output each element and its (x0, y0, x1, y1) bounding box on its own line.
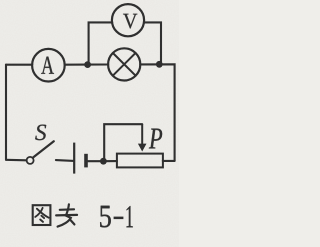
wire: left junction to lamp (88, 63, 109, 65)
wire: voltmeter branch left (dot up and over to V) (89, 22, 113, 62)
wire: bottom left to switch (6, 159, 27, 162)
lamp (108, 48, 140, 80)
node: bottom junction (100, 158, 107, 165)
wire: slider feed (junction up and over to arrow) (104, 124, 142, 159)
node: left junction (84, 61, 91, 68)
caption: 5-1 (100, 206, 133, 228)
wire: left rail vertical (5, 65, 7, 160)
node: right junction (156, 61, 163, 68)
wire: bottom junction to rheostat body (103, 160, 117, 162)
wire: switch contact to battery (56, 159, 74, 162)
wire: rheostat body to right rail (163, 160, 175, 162)
wire: lamp to right junction and top-right corner down (140, 64, 174, 161)
caption: character 图 (33, 205, 51, 225)
caption: character 专 (56, 204, 77, 226)
battery cell (74, 143, 86, 174)
switch S (27, 125, 54, 164)
ammeter A (32, 49, 65, 82)
wire: left rail top (corner to ammeter) (6, 64, 32, 66)
rheostat P (117, 124, 163, 167)
wire: battery to bottom junction (88, 160, 104, 162)
wire: ammeter to left junction (65, 64, 88, 66)
wire: voltmeter branch right (V over and down to dot) (144, 22, 161, 62)
voltmeter V (112, 4, 144, 36)
